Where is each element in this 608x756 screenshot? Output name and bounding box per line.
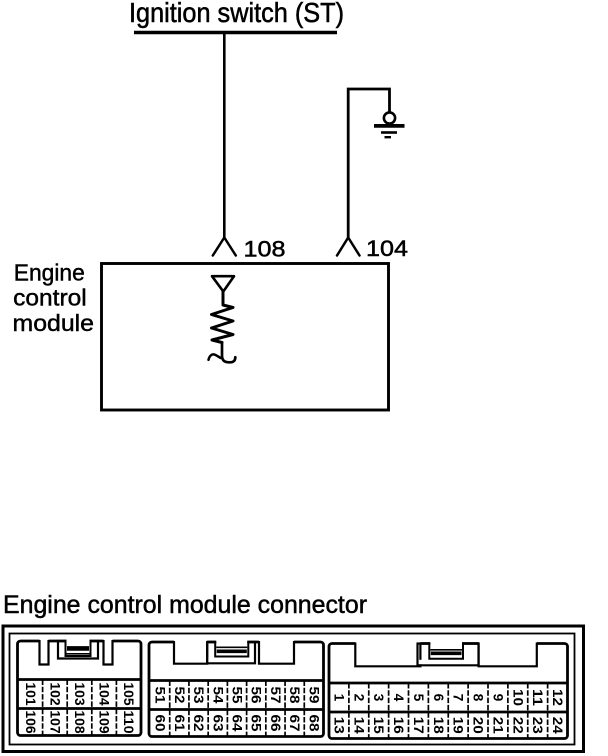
svg-text:64: 64 xyxy=(230,715,245,732)
svg-text:Engine: Engine xyxy=(14,259,85,285)
svg-text:62: 62 xyxy=(191,715,206,732)
pin 54 xyxy=(210,687,225,704)
block A key notch 2 xyxy=(104,638,113,665)
connector block B outline xyxy=(149,642,324,737)
svg-text:67: 67 xyxy=(287,715,302,732)
svg-text:55: 55 xyxy=(230,687,245,704)
pin 18 xyxy=(431,717,446,734)
pin 64 xyxy=(230,715,245,732)
svg-text:19: 19 xyxy=(451,717,466,734)
pin 22 xyxy=(510,717,525,734)
pin 14 xyxy=(351,717,366,734)
pin 62 xyxy=(191,715,206,732)
pin 12 xyxy=(550,689,565,706)
svg-text:51: 51 xyxy=(153,687,168,704)
svg-text:20: 20 xyxy=(471,717,486,734)
svg-text:2: 2 xyxy=(351,694,366,702)
pin 103 xyxy=(72,682,87,706)
svg-text:16: 16 xyxy=(391,717,406,734)
svg-text:101: 101 xyxy=(23,682,38,706)
block C key notch 1 xyxy=(355,640,420,666)
pin 9 xyxy=(490,694,505,702)
svg-text:56: 56 xyxy=(249,687,264,704)
pin 15 xyxy=(371,717,386,734)
label: Engine control module connector xyxy=(3,591,367,619)
pin 104 connector arrow xyxy=(337,238,360,256)
svg-text:60: 60 xyxy=(153,715,168,732)
pin 5 xyxy=(411,694,426,702)
pin 24 xyxy=(550,717,565,734)
block A center latch key xyxy=(57,638,99,659)
wire: ground branch to ECM pin 104 xyxy=(348,89,389,238)
pin 109 xyxy=(97,710,112,734)
block C pin grid lines xyxy=(329,683,568,739)
pin 60 xyxy=(153,715,168,732)
pin 66 xyxy=(268,715,283,732)
engine control module box xyxy=(102,264,389,411)
svg-text:11: 11 xyxy=(530,689,545,706)
pin 68 xyxy=(306,715,321,732)
pin 16 xyxy=(391,717,406,734)
svg-text:57: 57 xyxy=(268,687,283,704)
svg-text:103: 103 xyxy=(72,682,87,706)
svg-text:61: 61 xyxy=(172,715,187,732)
pin 51 xyxy=(153,687,168,704)
svg-text:22: 22 xyxy=(510,717,525,734)
block B pin grid lines xyxy=(149,681,324,737)
pin 8 xyxy=(471,694,486,702)
pin 1 xyxy=(331,694,346,702)
pin 58 xyxy=(287,687,302,704)
pin 17 xyxy=(411,717,426,734)
svg-text:9: 9 xyxy=(490,694,505,702)
pin 2 xyxy=(351,694,366,702)
label: Engine control module xyxy=(13,259,95,336)
svg-text:23: 23 xyxy=(530,717,545,734)
svg-text:109: 109 xyxy=(97,710,112,734)
pin 21 xyxy=(490,717,505,734)
block A key notch 1 xyxy=(40,638,49,665)
pin 6 xyxy=(431,694,446,702)
internal circuit continuation squiggle xyxy=(209,343,236,363)
svg-text:65: 65 xyxy=(249,715,264,732)
pin 107 xyxy=(47,710,62,734)
pin 59 xyxy=(306,687,321,704)
wire: ignition switch to ECM pin 108 xyxy=(223,33,226,239)
svg-text:68: 68 xyxy=(306,715,321,732)
svg-text:108: 108 xyxy=(72,710,87,734)
block B key notch 2 xyxy=(259,639,294,664)
svg-text:Ignition switch (ST): Ignition switch (ST) xyxy=(129,0,344,28)
svg-text:104: 104 xyxy=(97,682,112,706)
svg-text:14: 14 xyxy=(351,717,366,734)
svg-text:3: 3 xyxy=(371,694,386,702)
svg-text:108: 108 xyxy=(244,237,286,262)
pin 104 xyxy=(97,682,112,706)
svg-text:Engine control module connecto: Engine control module connector xyxy=(3,591,367,619)
pin 65 xyxy=(249,715,264,732)
ignition switch terminal bar xyxy=(134,31,337,34)
pin 67 xyxy=(287,715,302,732)
svg-text:module: module xyxy=(13,310,95,336)
svg-text:18: 18 xyxy=(431,717,446,734)
svg-text:8: 8 xyxy=(471,694,486,702)
internal driver triangle xyxy=(212,276,234,291)
pin 7 xyxy=(451,694,466,702)
svg-text:10: 10 xyxy=(510,689,525,706)
pin 106 xyxy=(23,710,38,734)
connector block C outline xyxy=(329,644,568,739)
pin 101 xyxy=(23,682,38,706)
pin 23 xyxy=(530,717,545,734)
svg-text:107: 107 xyxy=(47,710,62,734)
pin label 104 xyxy=(366,236,408,261)
pin 57 xyxy=(268,687,283,704)
svg-text:59: 59 xyxy=(306,687,321,704)
connector inner frame xyxy=(10,634,575,745)
pin 102 xyxy=(47,682,62,706)
svg-text:102: 102 xyxy=(47,682,62,706)
pin label 108 xyxy=(244,237,286,262)
svg-text:12: 12 xyxy=(550,689,565,706)
svg-text:104: 104 xyxy=(366,236,408,261)
pin 20 xyxy=(471,717,486,734)
pin 10 xyxy=(510,689,525,706)
pin 63 xyxy=(210,715,225,732)
pin 19 xyxy=(451,717,466,734)
pin 108 xyxy=(72,710,87,734)
block C key notch 2 xyxy=(479,640,537,666)
ground symbol xyxy=(374,112,405,137)
svg-text:21: 21 xyxy=(490,717,505,734)
pin 55 xyxy=(230,687,245,704)
connector outer frame xyxy=(3,626,584,752)
svg-text:6: 6 xyxy=(431,694,446,702)
block C center latch key xyxy=(417,640,480,665)
svg-text:110: 110 xyxy=(121,710,136,734)
connector block A outline xyxy=(18,641,142,736)
pin 110 xyxy=(121,710,136,734)
svg-text:13: 13 xyxy=(331,717,346,734)
pin 13 xyxy=(331,717,346,734)
svg-text:53: 53 xyxy=(191,687,206,704)
block A pin grid lines xyxy=(18,680,142,736)
svg-text:15: 15 xyxy=(371,717,386,734)
pin 3 xyxy=(371,694,386,702)
svg-text:24: 24 xyxy=(550,717,565,734)
svg-text:66: 66 xyxy=(268,715,283,732)
pin 4 xyxy=(391,694,406,702)
svg-text:1: 1 xyxy=(331,694,346,702)
block B key notch 1 xyxy=(174,639,207,664)
pin 11 xyxy=(530,689,545,706)
svg-text:63: 63 xyxy=(210,715,225,732)
svg-text:5: 5 xyxy=(411,694,426,702)
svg-text:58: 58 xyxy=(287,687,302,704)
svg-text:control: control xyxy=(13,285,87,311)
svg-text:4: 4 xyxy=(391,694,406,702)
svg-text:105: 105 xyxy=(121,682,136,706)
internal resistor zigzag xyxy=(212,292,234,343)
pin 56 xyxy=(249,687,264,704)
svg-text:52: 52 xyxy=(172,687,187,704)
pin 52 xyxy=(172,687,187,704)
pin 61 xyxy=(172,715,187,732)
svg-text:7: 7 xyxy=(451,694,466,702)
svg-text:54: 54 xyxy=(210,687,225,704)
pin 108 connector arrow xyxy=(213,238,236,256)
block B center latch key xyxy=(206,639,256,664)
svg-text:106: 106 xyxy=(23,710,38,734)
svg-text:17: 17 xyxy=(411,717,426,734)
pin 53 xyxy=(191,687,206,704)
label: Ignition switch (ST) xyxy=(129,0,344,28)
pin 105 xyxy=(121,682,136,706)
